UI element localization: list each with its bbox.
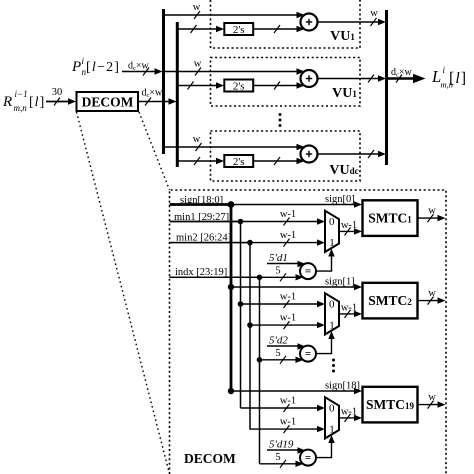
svg-text:w: w: [193, 2, 201, 13]
mux group1: [325, 211, 339, 252]
bus1 vertical (P distribution): [162, 9, 165, 154]
indx vertical bus: [259, 277, 261, 464]
2's complement block VUdc: [224, 155, 253, 168]
SMTC2 block: [363, 283, 418, 319]
wire sign[18] to SMTC19: [231, 381, 362, 395]
svg-text:P: P: [71, 59, 81, 75]
wire sign[0] to SMTC1: [231, 194, 362, 208]
svg-text:indx [23:19]: indx [23:19]: [175, 267, 227, 278]
indx wire: [170, 267, 260, 278]
min1 vertical bus: [240, 222, 242, 409]
junction indx bus group2: [257, 357, 263, 363]
svg-text:VU1: VU1: [330, 29, 355, 44]
svg-text:w: w: [428, 288, 436, 299]
wire comparator to mux select group1: [316, 249, 335, 272]
svg-text:R: R: [2, 94, 12, 110]
svg-text:w-1: w-1: [280, 292, 296, 303]
svg-text:dc×w: dc×w: [391, 67, 413, 79]
svg-text:=: =: [305, 266, 311, 278]
DECOM detail dashed box: [170, 190, 447, 474]
svg-text:=: =: [305, 452, 311, 464]
2's complement block VU1: [224, 23, 253, 36]
mux group2: [325, 293, 339, 334]
wire adder VU1 to right bus with w: [318, 8, 387, 26]
wire w from bus1 to adder U1 top: [164, 2, 305, 19]
constant 5'd1 wire to comparator group1: [267, 252, 306, 267]
wire from bus2 to 2's converter VU1: [177, 25, 224, 33]
svg-text:sign[18:0]: sign[18:0]: [180, 195, 223, 206]
svg-text:VU1: VU1: [332, 86, 357, 101]
wire min1 w-1 to mux group1: [170, 209, 326, 226]
wire mux output w-1 to SMTC1: [339, 220, 362, 236]
svg-text:=: =: [305, 348, 311, 360]
svg-text:w: w: [370, 8, 378, 19]
junction sign bus group19: [228, 388, 234, 394]
vertical dots between group2 and group19: [332, 359, 335, 373]
dotted magnifier line left from DECOM to detail box: [77, 112, 170, 472]
wire sign[1] to SMTC2: [231, 277, 362, 291]
svg-text:0: 0: [329, 216, 335, 228]
right output bus vertical: [385, 10, 388, 165]
svg-text:w: w: [194, 59, 202, 70]
wire 2's to adder VU1: [253, 25, 304, 33]
svg-text:30: 30: [52, 87, 63, 98]
wire mux output w-1 to SMTC19: [339, 406, 362, 422]
svg-text:[l−2]: [l−2]: [86, 60, 120, 75]
wire w from bus1 to adder VUdc top: [164, 134, 305, 151]
wire from bus2 to 2's converter VUdc: [177, 157, 224, 165]
wire 2's to adder VU2: [253, 82, 304, 90]
wire SMTC19 output w: [418, 392, 446, 409]
svg-text:5: 5: [275, 348, 280, 359]
sign[18:0] wire (thick): [170, 195, 232, 206]
wire adder VUdc to right bus: [318, 150, 387, 158]
svg-text:w: w: [428, 206, 436, 217]
svg-text:sign[0]: sign[0]: [325, 194, 355, 205]
wire min2 w-1 to mux group1: [170, 230, 326, 247]
junction indx bus group1: [257, 275, 263, 281]
wire indx 5 to comparator group2: [260, 348, 304, 364]
SMTC1 block: [363, 200, 418, 236]
wire adder VU2 to right bus: [318, 75, 387, 83]
svg-text:min2 [26:24]: min2 [26:24]: [176, 233, 231, 244]
svg-text:5'd2: 5'd2: [269, 335, 288, 347]
svg-text:w-1: w-1: [280, 230, 296, 241]
DECOM block: [77, 92, 139, 111]
output arrow d_c x w from right bus: [387, 67, 426, 83]
sign vertical bus: [230, 205, 233, 392]
svg-text:1: 1: [329, 320, 335, 332]
junction sign bus group2: [228, 284, 234, 290]
min2 vertical bus: [249, 243, 251, 430]
bus2 vertical (DECOM output distribution): [176, 22, 179, 167]
svg-text:5: 5: [275, 265, 280, 276]
VU dc dashed box: [211, 131, 361, 181]
junction sign bus group1: [228, 201, 235, 208]
svg-text:DECOM: DECOM: [82, 95, 134, 110]
wire min1 w-1 to mux group19: [241, 396, 326, 413]
svg-text:w-1: w-1: [280, 417, 296, 428]
comparator = group2: [300, 346, 316, 362]
svg-text:w-1: w-1: [280, 209, 296, 220]
svg-text:SMTC2: SMTC2: [368, 293, 412, 308]
svg-text:0: 0: [329, 299, 335, 311]
wire R input to DECOM with width 30: [46, 87, 76, 106]
svg-text:5'd1: 5'd1: [269, 252, 288, 264]
vertical dots between VU2 and VU dc: [279, 113, 282, 127]
svg-text:SMTC1: SMTC1: [368, 211, 412, 226]
svg-text:2's: 2's: [233, 156, 245, 168]
wire DECOM output d_c x w to bus2: [139, 88, 177, 106]
svg-text:w: w: [428, 392, 436, 403]
svg-text:5'd19: 5'd19: [269, 439, 294, 451]
wire SMTC2 output w: [418, 288, 446, 305]
mux group19: [325, 397, 339, 438]
min1 wire: [170, 212, 241, 223]
svg-text:i−1: i−1: [15, 89, 28, 99]
wire comparator to mux select group19: [316, 435, 335, 458]
svg-text:1: 1: [329, 237, 335, 249]
wire min1 w-1 to mux group2: [241, 292, 326, 309]
junction min1 bus group2: [238, 301, 244, 307]
svg-text:dc×w: dc×w: [142, 88, 164, 100]
svg-text:dc×w: dc×w: [128, 61, 150, 73]
dotted magnifier line right from DECOM to detail box: [139, 112, 170, 190]
wire SMTC1 output w: [418, 206, 446, 223]
svg-text:w-1: w-1: [341, 220, 357, 231]
svg-text:2's: 2's: [233, 81, 245, 93]
wire indx 5 to comparator group1: [170, 265, 304, 281]
wire P input d_c x w to bus1: [122, 61, 163, 76]
adder VU2: [301, 70, 318, 87]
wire min2 w-1 to mux group2: [250, 313, 325, 330]
wire 2's to adder VUdc: [253, 157, 304, 165]
wire from bus2 to 2's converter VU2: [177, 82, 224, 90]
svg-text:VUdc: VUdc: [329, 163, 358, 178]
constant 5'd19 wire to comparator group19: [267, 439, 306, 454]
wire comparator to mux select group2: [316, 331, 335, 354]
VU1 dashed box: [211, 0, 361, 48]
svg-text:w-1: w-1: [341, 302, 357, 313]
svg-text:[l]: [l]: [29, 95, 45, 110]
svg-text:w: w: [193, 134, 201, 145]
min2 wire: [170, 233, 251, 244]
svg-text:1: 1: [329, 424, 335, 436]
junction min2 bus group1: [247, 240, 253, 246]
node R_mn input label: [2, 89, 45, 113]
node P_n input label: [71, 56, 120, 77]
wire mux output w-1 to SMTC2: [339, 302, 362, 318]
svg-text:sign[1]: sign[1]: [325, 277, 355, 288]
svg-text:0: 0: [329, 403, 335, 415]
comparator = group1: [300, 263, 316, 279]
svg-text:w-1: w-1: [341, 406, 357, 417]
VU2 dashed box: [211, 58, 361, 107]
svg-text:2's: 2's: [233, 24, 245, 36]
svg-text:sign[18]: sign[18]: [325, 381, 360, 392]
svg-text:DECOM: DECOM: [184, 451, 236, 466]
SMTC19 block: [363, 387, 418, 423]
svg-text:w-1: w-1: [280, 396, 296, 407]
adder VUdc: [301, 146, 318, 163]
node L_mn output label: [431, 65, 467, 90]
junction min2 bus group2: [247, 322, 253, 328]
wire indx 5 to comparator group19: [260, 452, 304, 468]
svg-text:m,n: m,n: [14, 103, 28, 113]
adder VU1: [301, 14, 318, 31]
svg-text:w-1: w-1: [280, 313, 296, 324]
comparator = group19: [300, 450, 316, 466]
svg-text:5: 5: [275, 452, 280, 463]
wire min2 w-1 to mux group19: [250, 417, 325, 434]
wire w from bus1 to adder VU2 top: [164, 59, 305, 76]
2's complement block VU2: [224, 80, 253, 93]
svg-text:[l]: [l]: [449, 70, 467, 87]
constant 5'd2 wire to comparator group2: [267, 335, 306, 350]
junction min1 bus group1: [238, 219, 244, 225]
